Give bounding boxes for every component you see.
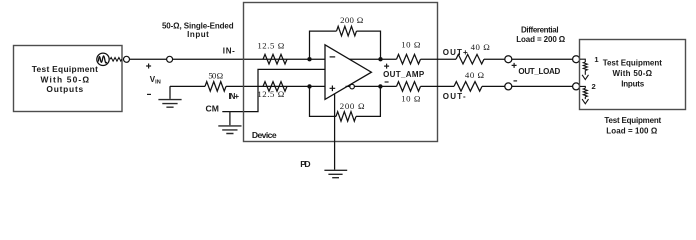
wire OUT- out of device — [421, 85, 455, 87]
terminal circle OUT_LOAD - — [505, 83, 512, 90]
label 50-ohm single-ended input — [162, 22, 234, 40]
label + OUT_AMP - — [384, 64, 389, 69]
junction dot OUT- — [378, 84, 382, 88]
svg-text:Input: Input — [187, 30, 209, 39]
label + OUT_LOAD - — [512, 63, 517, 68]
ground (PD) — [324, 170, 347, 177]
input termination 2 (resistor + arrow) — [580, 86, 589, 103]
svg-text:2: 2 — [592, 82, 596, 91]
junction dot IN- feedback tap — [307, 57, 311, 61]
Device box — [244, 3, 438, 142]
feedback network bottom: wire — [310, 86, 381, 116]
svg-text:Test Equipment: Test Equipment — [604, 116, 661, 125]
resistor 10 ohm (bottom) — [397, 82, 421, 92]
svg-text:Test Equipment: Test Equipment — [603, 58, 663, 67]
svg-text:OUT_LOAD: OUT_LOAD — [518, 67, 560, 76]
svg-text:Outputs: Outputs — [46, 84, 83, 94]
svg-text:200 Ω: 200 Ω — [340, 101, 365, 111]
wire IN+ to device — [226, 85, 325, 87]
resistor 10 ohm (top) — [397, 54, 421, 64]
svg-text:40 Ω: 40 Ω — [471, 42, 491, 52]
svg-text:IN-: IN- — [223, 47, 235, 56]
svg-text:With 50-Ω: With 50-Ω — [41, 74, 90, 84]
input termination 1 (resistor + arrow) — [580, 59, 589, 79]
svg-text:OUT_AMP: OUT_AMP — [383, 70, 425, 79]
svg-text:CM: CM — [206, 103, 219, 113]
svg-text:OUT-: OUT- — [443, 92, 466, 101]
svg-text:12.5 Ω: 12.5 Ω — [257, 40, 284, 50]
source resistor (internal 50 ohm) — [110, 58, 122, 62]
label - (VIN minus) — [147, 93, 151, 95]
label + (VIN plus) — [146, 64, 151, 69]
svg-text:With 50-Ω: With 50-Ω — [613, 69, 653, 78]
AC source VS — [97, 53, 109, 65]
wire from ground to 50 ohm resistor — [170, 85, 205, 87]
svg-text:200 Ω: 200 Ω — [340, 15, 364, 25]
svg-text:Load = 100 Ω: Load = 100 Ω — [606, 126, 658, 135]
left box label: Test Equipment With 50-Ω Outputs — [32, 64, 98, 94]
wire 40 ohm top to OUT_LOAD terminal — [484, 58, 505, 60]
wire top between terminals — [130, 58, 167, 60]
wire IN- to device — [173, 58, 325, 60]
svg-text:40 Ω: 40 Ω — [465, 70, 485, 80]
ground (CM) — [218, 112, 241, 134]
svg-text:10 Ω: 10 Ω — [401, 93, 421, 103]
wire OUT+ out of device — [421, 58, 457, 60]
svg-text:50 Ω: 50 Ω — [208, 70, 223, 80]
op-amp minus input mark — [330, 56, 336, 58]
resistor 200 ohm (top feedback) — [337, 26, 357, 36]
test equipment right box — [580, 40, 686, 110]
svg-text:Test Equipment: Test Equipment — [32, 64, 98, 74]
terminal circle OUT_LOAD + — [505, 56, 512, 63]
resistor 50 ohm termination — [205, 82, 226, 92]
resistor 12.5 ohm (top) — [263, 54, 287, 64]
resistor 12.5 ohm (bottom) — [263, 82, 287, 92]
op-amp U1 (fully differential) — [325, 45, 371, 100]
wire op-amp top output — [349, 58, 396, 60]
wire OUT_LOAD- to right box — [512, 85, 573, 87]
resistor 200 ohm (bottom feedback) — [336, 112, 356, 122]
svg-text:Inputs: Inputs — [621, 80, 645, 89]
svg-text:IN+: IN+ — [229, 92, 240, 101]
resistor 40 ohm (top) — [456, 54, 484, 64]
svg-text:OUT+: OUT+ — [443, 48, 468, 57]
wire OUT_LOAD+ to right box — [512, 58, 573, 60]
label Test Equipment Load = 100 ohm — [604, 116, 661, 135]
wire op-amp bottom output — [346, 85, 350, 87]
right box label: Test Equipment With 50-Ω Inputs — [603, 58, 663, 88]
svg-text:PD: PD — [300, 159, 310, 169]
terminal circle (source output) — [124, 56, 130, 62]
svg-text:10 Ω: 10 Ω — [401, 39, 421, 49]
op-amp plus input mark — [330, 86, 336, 92]
svg-text:Differential: Differential — [521, 25, 559, 34]
wire CM to amplifier vocm — [222, 69, 325, 111]
junction dot IN+ feedback tap — [307, 84, 311, 88]
test equipment left box — [14, 46, 123, 112]
wire 40 ohm bottom to OUT_LOAD terminal — [482, 85, 505, 87]
feedback network top: wire — [310, 31, 381, 59]
svg-text:Device: Device — [252, 130, 277, 140]
op-amp inverting output bubble — [350, 84, 355, 89]
terminal circle (VIN port) — [167, 56, 173, 62]
label Differential Load = 200 ohm — [516, 25, 566, 44]
terminal circle right box input 2 — [573, 83, 580, 90]
svg-text:Load = 200 Ω: Load = 200 Ω — [516, 35, 566, 44]
wire PD to ground — [334, 94, 336, 170]
junction dot OUT+ — [378, 57, 382, 61]
terminal circle right box input 1 — [573, 56, 580, 63]
resistor 40 ohm (bottom) — [454, 82, 482, 92]
ground (VIN reference) — [158, 86, 181, 107]
svg-text:12.5 Ω: 12.5 Ω — [257, 89, 284, 99]
